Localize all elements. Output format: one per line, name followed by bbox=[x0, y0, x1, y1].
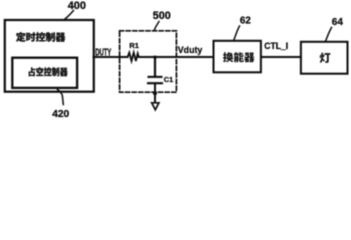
wire Vduty from resistor R1 to block 62 bbox=[139, 56, 214, 58]
ground bbox=[152, 103, 159, 110]
label text 定时控制器 bbox=[16, 32, 65, 42]
svg-text:R1: R1 bbox=[129, 41, 138, 50]
wire from C1 to ground bbox=[154, 84, 156, 101]
junction dot on dashed box edge bbox=[153, 91, 157, 95]
leader line to 500 bbox=[154, 22, 159, 31]
leader line to 64 bbox=[326, 28, 332, 42]
svg-text:DUTY: DUTY bbox=[95, 47, 111, 58]
svg-text:400: 400 bbox=[68, 0, 86, 12]
leader line to 400 bbox=[65, 11, 74, 20]
svg-text:Vduty: Vduty bbox=[178, 45, 203, 56]
label text 换能器 bbox=[223, 52, 255, 62]
svg-text:CTL_I: CTL_I bbox=[264, 41, 288, 52]
node junction of C1 branch on Vduty wire bbox=[153, 56, 156, 59]
wire CTL_I from block 62 to block 64 bbox=[261, 56, 301, 58]
block 64 lamp box bbox=[301, 42, 348, 74]
dashed box 500 RC filter bbox=[120, 31, 177, 92]
capacitor C1 bbox=[148, 77, 162, 83]
svg-text:C1: C1 bbox=[164, 75, 173, 84]
wire DUTY from block 400 to resistor R1 bbox=[94, 56, 128, 58]
resistor R1 bbox=[128, 53, 139, 61]
block 420 duty controller box bbox=[12, 58, 77, 88]
svg-text:500: 500 bbox=[153, 10, 171, 22]
label text 占空控制器 bbox=[29, 67, 68, 76]
svg-text:62: 62 bbox=[240, 15, 251, 26]
leader line to 420 bbox=[58, 90, 64, 105]
wire from junction to capacitor C1 bbox=[154, 57, 156, 76]
block 62 converter box bbox=[214, 41, 261, 73]
block 400 timing controller box bbox=[5, 20, 94, 92]
label text 灯 bbox=[320, 53, 331, 63]
svg-text:420: 420 bbox=[52, 109, 69, 119]
leader line to 62 bbox=[234, 26, 240, 40]
svg-text:64: 64 bbox=[332, 17, 344, 28]
